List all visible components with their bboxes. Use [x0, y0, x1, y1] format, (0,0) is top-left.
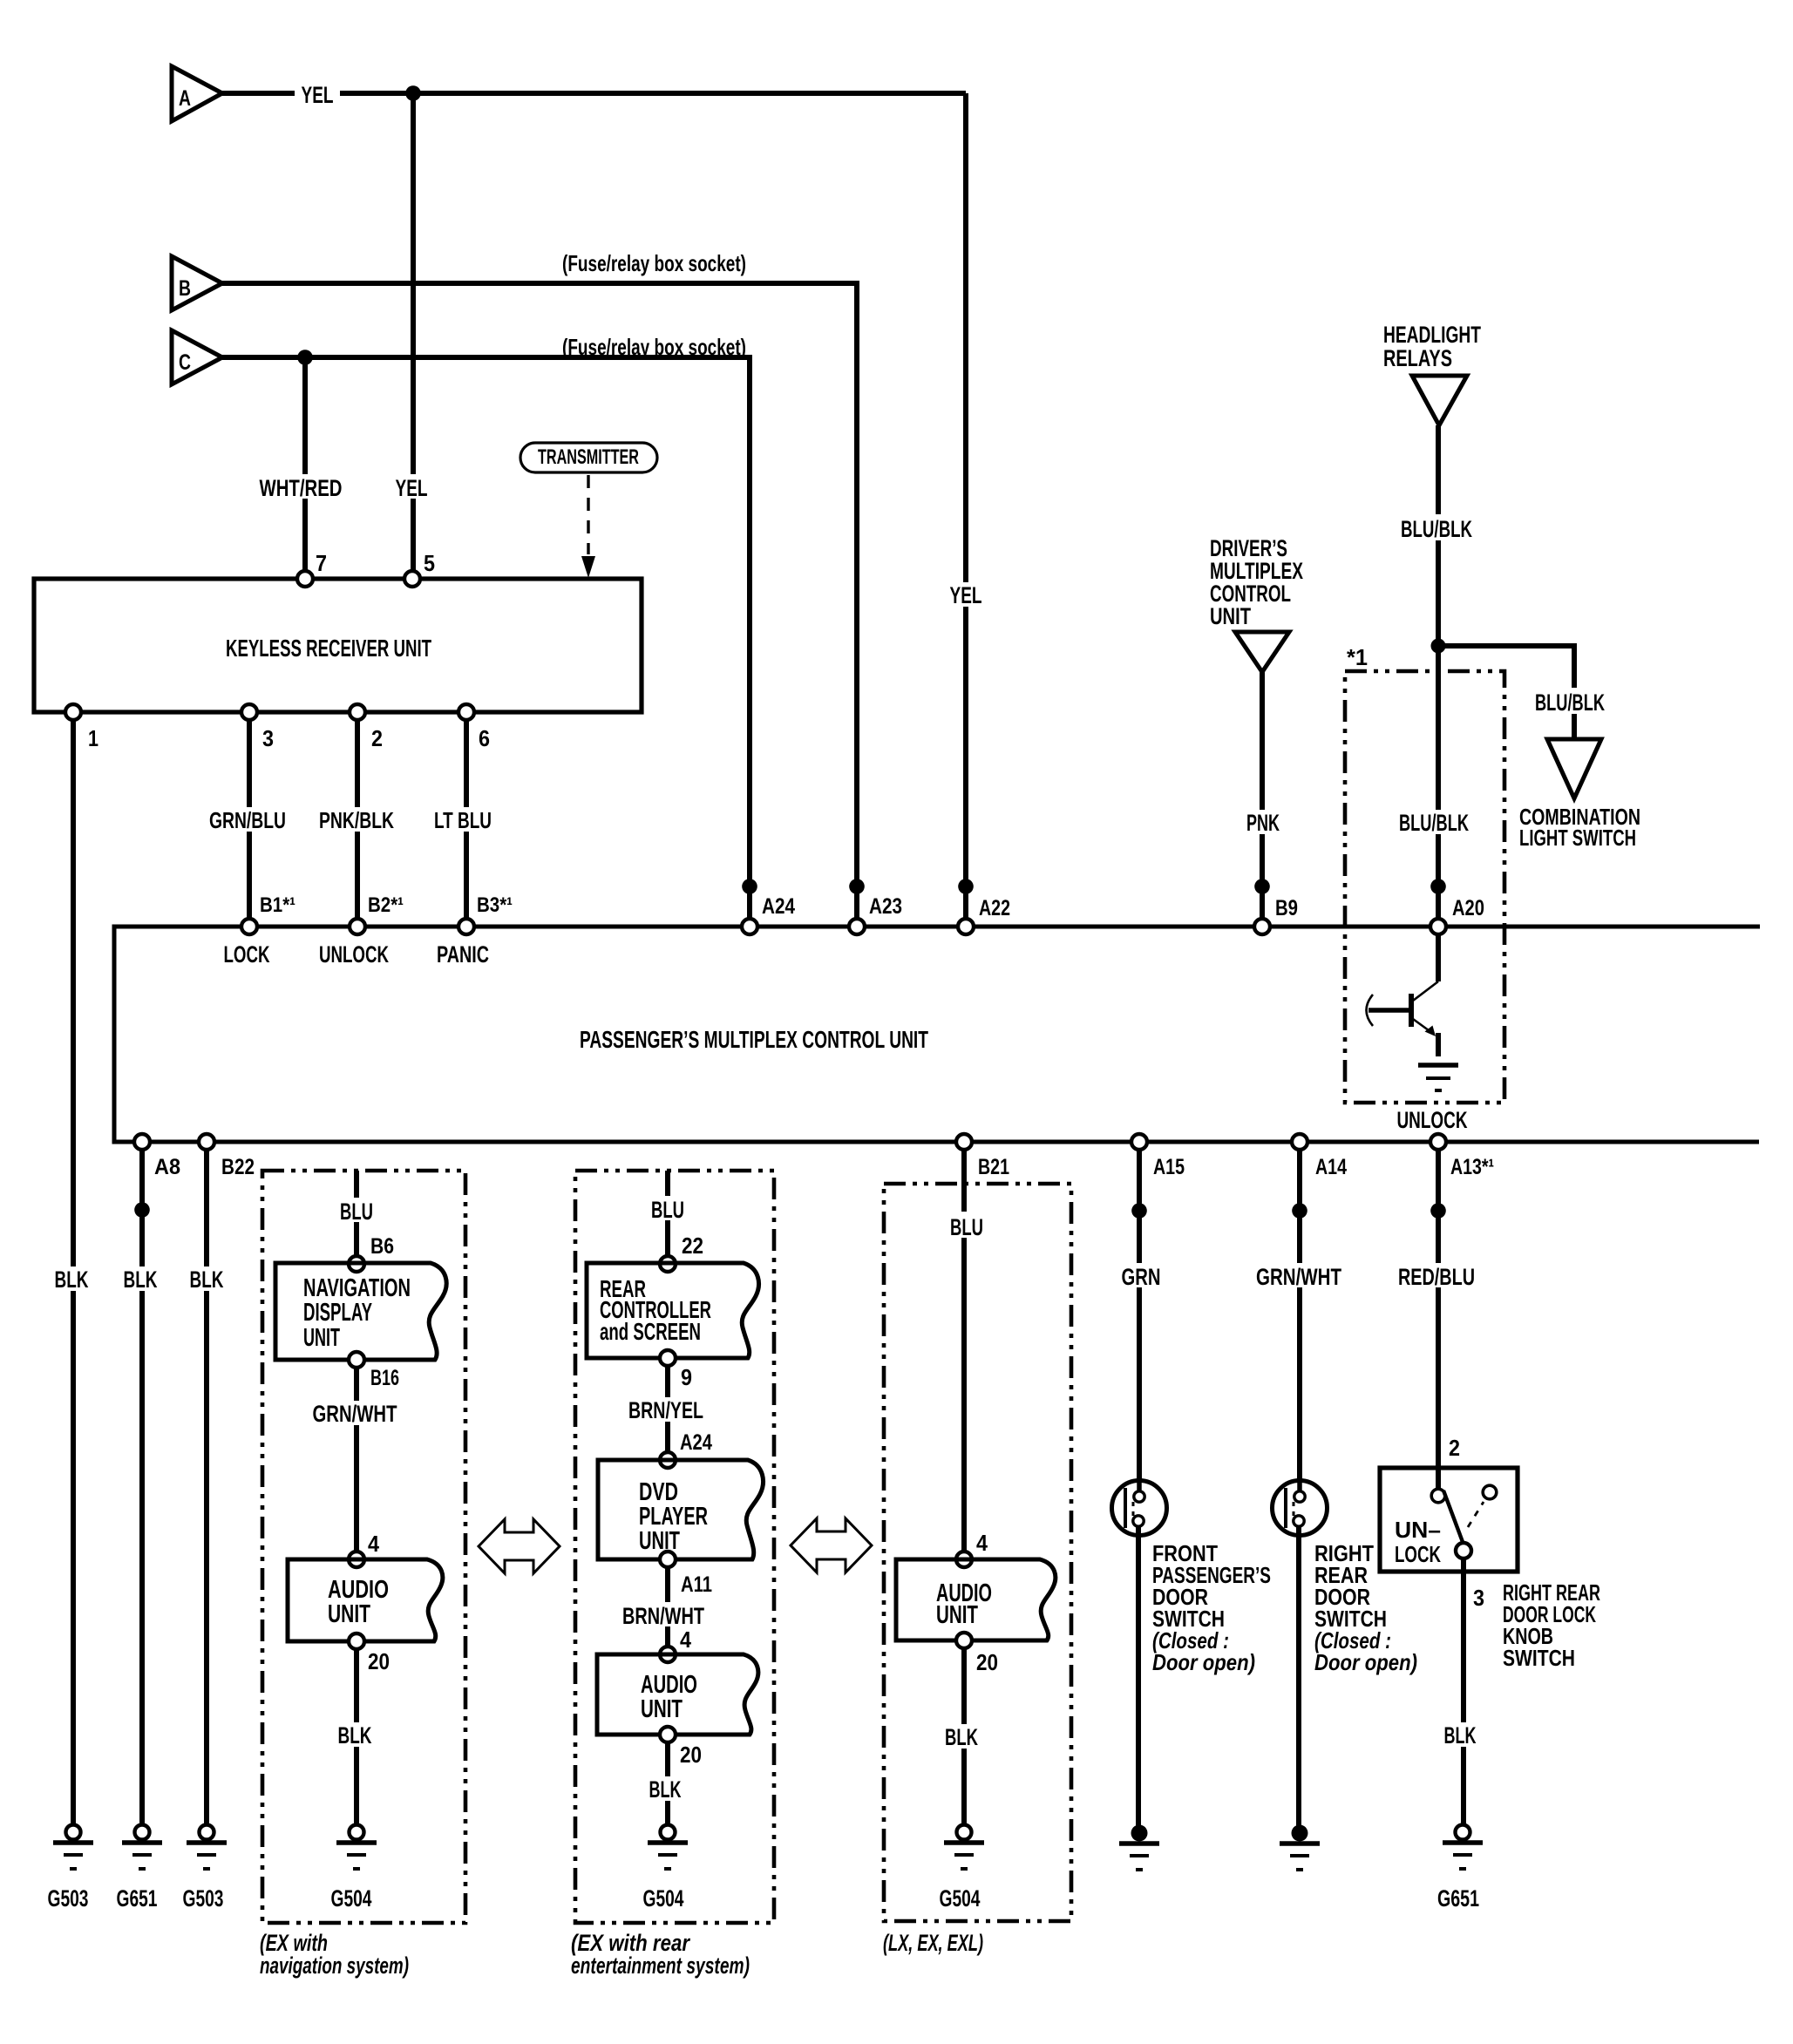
label PNK [1242, 810, 1284, 836]
svg-text:B1*¹: B1*¹ [260, 893, 295, 917]
wire A down to A22 [963, 93, 968, 922]
ground G651 (knob switch) [1437, 1825, 1483, 1912]
wire A15 column [1137, 1150, 1142, 1492]
svg-text:G504: G504 [940, 1885, 981, 1912]
passenger's multiplex control unit [114, 927, 1760, 1142]
label BLK (knob switch) [1440, 1722, 1484, 1749]
svg-text:BLU: BLU [340, 1199, 373, 1225]
svg-text:A24: A24 [680, 1430, 712, 1455]
svg-text:A22: A22 [979, 896, 1010, 920]
svg-text:PNK: PNK [1246, 810, 1280, 836]
svg-text:BLU: BLU [651, 1197, 684, 1223]
svg-text:UN–: UN– [1395, 1517, 1441, 1543]
label BRN/WHT [619, 1602, 717, 1629]
svg-text:A15: A15 [1153, 1155, 1185, 1179]
label BLK (rear) [645, 1776, 689, 1803]
combination light switch label [1519, 804, 1640, 851]
transistor Q1 [1367, 981, 1439, 1056]
svg-text:GRN/WHT: GRN/WHT [313, 1401, 397, 1427]
driver's multiplex antenna triangle [1235, 632, 1289, 672]
node A14 [1292, 1134, 1307, 1150]
wire A13 column [1436, 1150, 1441, 1489]
wire A14 switch to ground [1296, 1525, 1301, 1828]
keyless pin 7 [297, 571, 313, 587]
svg-text:(Fuse/relay box socket): (Fuse/relay box socket) [562, 250, 746, 276]
junction dot on A8 wire [134, 1202, 150, 1218]
node 22 [660, 1256, 676, 1272]
headlight relays label [1383, 322, 1481, 371]
wire B to A23 [222, 283, 857, 922]
svg-text:YEL: YEL [950, 582, 982, 608]
junction dot above A20 [1430, 879, 1446, 894]
svg-text:B: B [179, 276, 191, 301]
node 4 (nav audio) [349, 1552, 364, 1567]
node A11 [660, 1552, 676, 1567]
keyless pin 5 [404, 571, 420, 587]
svg-text:SWITCH: SWITCH [1503, 1645, 1575, 1671]
junction dot above A24 [742, 879, 757, 894]
node A23 [849, 919, 865, 934]
label GRN [1118, 1263, 1164, 1290]
keyless pin 3 [241, 704, 257, 720]
navigation display unit [275, 1263, 446, 1360]
svg-text:PASSENGER’S MULTIPLEX CONTROL: PASSENGER’S MULTIPLEX CONTROL UNIT [580, 1026, 928, 1053]
svg-text:4: 4 [368, 1531, 379, 1557]
wire rear column top [665, 1171, 670, 1256]
label PNK/BLK [314, 807, 401, 833]
svg-text:HEADLIGHT: HEADLIGHT [1383, 322, 1481, 348]
wire nav column top [354, 1171, 359, 1256]
keyless pin 6 [458, 704, 474, 720]
svg-text:BLU/BLK: BLU/BLK [1535, 689, 1605, 716]
audio unit (rear) [597, 1654, 758, 1735]
junction dot above B9 [1254, 879, 1270, 894]
wire B16 to audio 4 [354, 1368, 359, 1552]
svg-text:4: 4 [976, 1530, 988, 1556]
svg-text:22: 22 [682, 1233, 703, 1259]
keyless receiver unit [34, 579, 642, 712]
ground G651 (A8) [117, 1825, 163, 1912]
label BLK (B22 wire) [186, 1266, 229, 1293]
label YEL (wire A) [295, 82, 340, 108]
svg-text:RELAYS: RELAYS [1383, 345, 1452, 371]
headlight relays triangle [1412, 376, 1467, 425]
svg-text:UNIT: UNIT [328, 1600, 370, 1628]
caption (EX with rear entertainment system) [571, 1930, 750, 1979]
svg-text:BLU/BLK: BLU/BLK [1399, 810, 1469, 836]
ground G504 (nav) [331, 1825, 377, 1912]
node B3*1 [458, 919, 474, 934]
dashed option box EX with navigation system [262, 1171, 465, 1923]
wire nav audio to ground [354, 1649, 359, 1825]
svg-text:BLU/BLK: BLU/BLK [1401, 516, 1472, 542]
svg-text:GRN/BLU: GRN/BLU [209, 807, 286, 833]
svg-text:B6: B6 [370, 1234, 394, 1259]
dashed option box EX with rear entertainment system [575, 1171, 774, 1923]
dashed option box *1 [1345, 671, 1504, 1103]
wire junction C down to keyless pin 7 [302, 357, 308, 579]
label YEL (A22 branch) [945, 582, 987, 608]
svg-text:BLK: BLK [124, 1266, 158, 1293]
ground (A14, door switch) [1280, 1825, 1320, 1871]
svg-text:BLU: BLU [950, 1214, 983, 1240]
svg-text:7: 7 [316, 550, 327, 576]
wire branch to combination light switch [1438, 646, 1574, 739]
label GRN/BLU [204, 807, 295, 833]
svg-text:Door open): Door open) [1314, 1649, 1417, 1675]
node 20 (nav audio) [349, 1633, 364, 1649]
wire rear audio to ground [665, 1742, 670, 1825]
ground G503 (B22) [183, 1825, 228, 1912]
wire B22 to ground [204, 1150, 209, 1825]
keyless pin 1 [65, 704, 81, 720]
svg-text:A23: A23 [869, 894, 902, 919]
right rear door switch [1273, 1480, 1328, 1536]
wire B21 column [961, 1150, 967, 1552]
svg-text:PNK/BLK: PNK/BLK [319, 807, 394, 833]
svg-text:RED/BLU: RED/BLU [1398, 1264, 1475, 1290]
wire 9 to A24 [665, 1366, 670, 1452]
svg-text:1: 1 [88, 725, 98, 751]
ground G503 (pin1) [48, 1825, 94, 1912]
node B2*1 [350, 919, 365, 934]
label BLU/BLK (branch) [1531, 688, 1614, 716]
svg-text:GRN: GRN [1122, 1264, 1161, 1290]
node 9 [660, 1350, 676, 1366]
ground G504 (B21) [940, 1825, 985, 1912]
svg-text:B21: B21 [978, 1155, 1009, 1179]
node 20 (rear audio) [660, 1727, 676, 1742]
svg-text:5: 5 [424, 550, 435, 576]
svg-text:6: 6 [479, 725, 490, 751]
equivalence arrow right [791, 1518, 872, 1572]
node A13*1 [1430, 1134, 1446, 1150]
svg-text:navigation system): navigation system) [260, 1952, 409, 1979]
node B6 [349, 1256, 364, 1272]
label WHT/RED [255, 474, 347, 501]
svg-text:(LX, EX, EXL): (LX, EX, EXL) [883, 1930, 983, 1956]
node B1*1 [241, 919, 257, 934]
svg-text:UNIT: UNIT [1210, 603, 1251, 629]
right rear door lock knob switch label [1503, 1579, 1600, 1671]
right rear door lock knob switch box [1380, 1468, 1518, 1572]
keyless pin 2 [350, 704, 365, 720]
svg-text:A24: A24 [762, 894, 795, 919]
caption (EX with navigation system) [260, 1930, 409, 1979]
junction dot on A14 wire [1292, 1203, 1307, 1219]
junction dot on A15 wire [1131, 1203, 1147, 1219]
junction on wire C [297, 350, 313, 365]
svg-text:G651: G651 [1437, 1885, 1479, 1912]
svg-text:UNIT: UNIT [639, 1527, 680, 1555]
wire junction A down to keyless pin 5 [411, 93, 416, 579]
svg-text:UNIT: UNIT [936, 1601, 978, 1629]
svg-text:B3*¹: B3*¹ [477, 893, 513, 917]
svg-text:LIGHT SWITCH: LIGHT SWITCH [1519, 825, 1636, 851]
wire A15 switch to ground [1136, 1525, 1141, 1828]
wire pin 3 to B1 [247, 720, 252, 922]
svg-text:B9: B9 [1275, 896, 1298, 920]
node 4 (rear audio) [660, 1647, 676, 1662]
junction dot headlight branch [1431, 639, 1446, 654]
label BLK (A8 wire) [120, 1266, 164, 1293]
audio unit (nav) [288, 1559, 443, 1641]
label BLK (nav) [335, 1722, 378, 1749]
front passenger's door switch label [1152, 1540, 1271, 1675]
svg-text:LOCK: LOCK [224, 941, 270, 968]
dashed option box LX, EX, EXL [884, 1184, 1071, 1921]
label BLU/BLK (upper) [1396, 514, 1478, 542]
svg-text:BLK: BLK [945, 1724, 978, 1750]
rear controller and screen [587, 1263, 758, 1358]
transistor Q1 collector wire [1436, 934, 1441, 981]
node A20 [1430, 919, 1446, 934]
label RED/BLU [1389, 1263, 1487, 1290]
svg-text:*1: *1 [1347, 644, 1368, 670]
node B16 [349, 1352, 364, 1368]
junction on wire A [405, 85, 421, 101]
svg-text:G503: G503 [183, 1885, 224, 1912]
junction dot above A22 [958, 879, 974, 894]
wire pin 1 down to ground [71, 720, 76, 1825]
wire knob switch to ground [1461, 1558, 1466, 1825]
label YEL (pin 5 wire) [391, 474, 434, 501]
wire pin 6 to B3 [464, 720, 469, 922]
svg-text:GRN/WHT: GRN/WHT [1256, 1264, 1341, 1290]
svg-text:G651: G651 [117, 1885, 158, 1912]
connector C [172, 330, 222, 384]
transmitter dashed arrow [581, 475, 595, 578]
svg-text:3: 3 [1473, 1585, 1484, 1611]
dvd player unit [598, 1460, 763, 1559]
node B22 [199, 1134, 214, 1150]
svg-text:3: 3 [262, 725, 274, 751]
svg-text:and SCREEN: and SCREEN [600, 1318, 701, 1345]
svg-text:A: A [179, 86, 191, 111]
svg-text:A8: A8 [154, 1155, 180, 1179]
node A24 (dvd) [660, 1452, 676, 1468]
wire C to A24 [222, 357, 750, 922]
svg-text:G503: G503 [48, 1885, 89, 1912]
label BLK (B21) [941, 1724, 985, 1750]
svg-text:9: 9 [681, 1364, 692, 1390]
right rear door switch label [1314, 1540, 1417, 1675]
svg-text:UNIT: UNIT [303, 1324, 340, 1352]
wire A8 to ground [139, 1150, 145, 1825]
label UN-LOCK [1395, 1517, 1441, 1567]
svg-text:UNLOCK: UNLOCK [319, 941, 389, 968]
connector A [172, 66, 222, 121]
svg-text:TRANSMITTER: TRANSMITTER [538, 445, 639, 469]
svg-text:B16: B16 [370, 1366, 399, 1390]
svg-text:PANIC: PANIC [437, 941, 489, 968]
svg-text:BLK: BLK [55, 1266, 89, 1293]
svg-text:BLK: BLK [190, 1266, 224, 1293]
label BLU (B21) [947, 1212, 988, 1240]
svg-text:G504: G504 [643, 1885, 684, 1912]
node A8 [134, 1134, 150, 1150]
svg-text:Door open): Door open) [1152, 1649, 1255, 1675]
ground (A15, door switch) [1119, 1825, 1159, 1871]
svg-text:20: 20 [680, 1742, 702, 1768]
svg-text:BRN/WHT: BRN/WHT [622, 1603, 704, 1629]
svg-text:DISPLAY: DISPLAY [303, 1299, 372, 1327]
svg-text:A20: A20 [1452, 896, 1484, 920]
combination light switch triangle [1547, 739, 1601, 798]
node B21 [956, 1134, 972, 1150]
junction dot above A23 [849, 879, 865, 894]
svg-text:20: 20 [368, 1648, 390, 1674]
junction dot on A13 wire [1430, 1203, 1446, 1219]
svg-text:UNLOCK: UNLOCK [1397, 1107, 1468, 1133]
label BLU (rear) [647, 1196, 689, 1223]
svg-text:20: 20 [976, 1649, 998, 1675]
wire A horizontal YEL [222, 91, 966, 96]
svg-text:BLK: BLK [1444, 1722, 1477, 1749]
node 4 (B21 audio) [956, 1552, 972, 1567]
wire A14 column [1297, 1150, 1302, 1492]
svg-text:2: 2 [1449, 1435, 1460, 1461]
transistor emitter ground [1418, 1065, 1458, 1090]
wire B21 audio to ground [961, 1648, 967, 1825]
svg-text:B2*¹: B2*¹ [368, 893, 404, 917]
svg-text:YEL: YEL [302, 82, 334, 108]
wire headlight relays to A20 [1436, 425, 1441, 922]
svg-text:2: 2 [371, 725, 383, 751]
svg-text:A11: A11 [681, 1572, 712, 1597]
wire A11 to 4 [665, 1567, 670, 1647]
label BLU/BLK (inside box) [1393, 810, 1475, 836]
transmitter [520, 443, 657, 472]
node A22 [958, 919, 974, 934]
svg-text:BLK: BLK [338, 1722, 372, 1749]
label BLK (pin1 wire) [51, 1266, 94, 1293]
equivalence arrow left [479, 1519, 560, 1573]
wire pin 2 to B2 [355, 720, 360, 922]
svg-text:LT BLU: LT BLU [434, 807, 492, 833]
wire driver's mcu to B9 [1260, 672, 1265, 922]
svg-text:A14: A14 [1315, 1155, 1347, 1179]
label GRN/WHT (A14) [1250, 1263, 1349, 1290]
ground G504 (rear) [643, 1825, 689, 1912]
connector B [172, 256, 222, 310]
label BRN/YEL [621, 1397, 716, 1423]
svg-text:BRN/YEL: BRN/YEL [628, 1397, 703, 1423]
front passenger's door switch [1112, 1480, 1167, 1536]
svg-text:entertainment system): entertainment system) [571, 1952, 750, 1979]
svg-text:LOCK: LOCK [1395, 1541, 1441, 1567]
svg-text:KEYLESS RECEIVER UNIT: KEYLESS RECEIVER UNIT [226, 635, 431, 662]
svg-text:BLK: BLK [649, 1776, 682, 1803]
svg-text:C: C [179, 350, 191, 375]
svg-text:YEL: YEL [396, 475, 428, 501]
svg-text:A13*¹: A13*¹ [1450, 1155, 1494, 1179]
knob switch contacts and blade [1431, 1485, 1497, 1558]
node A24 [742, 919, 757, 934]
audio unit (LX) [896, 1559, 1056, 1640]
label GRN/WHT (nav) [307, 1401, 406, 1427]
node 20 (B21 audio) [956, 1633, 972, 1648]
driver's multiplex control unit label [1210, 535, 1303, 629]
node B9 [1254, 919, 1270, 934]
svg-text:4: 4 [680, 1626, 691, 1653]
svg-text:B22: B22 [221, 1155, 255, 1179]
label BLU (nav) [336, 1198, 377, 1225]
svg-text:WHT/RED: WHT/RED [260, 475, 343, 501]
svg-text:UNIT: UNIT [641, 1695, 683, 1723]
svg-text:G504: G504 [331, 1885, 372, 1912]
label LT BLU [431, 807, 499, 833]
node A15 [1131, 1134, 1147, 1150]
